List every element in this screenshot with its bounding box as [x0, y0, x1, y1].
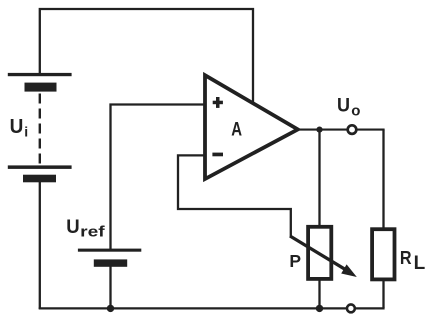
svg-text:A: A — [231, 120, 242, 141]
wire U_ref negative to bottom rail — [109, 266, 111, 308]
wire top rail from U_i positive to op-amp top — [40, 9, 253, 104]
wire non-inverting input from U_ref positive — [111, 105, 207, 251]
battery U_ref positive plate — [78, 249, 141, 252]
battery U_i lower cell negative plate — [23, 175, 56, 183]
svg-text:P: P — [289, 251, 301, 271]
wire output node down to potentiometer top — [318, 130, 320, 227]
junction dot potentiometer at bottom rail — [316, 305, 323, 312]
wire bottom rail — [39, 307, 385, 309]
battery U_i lower cell positive plate — [8, 165, 72, 169]
op-amp non-inverting plus sign — [213, 97, 223, 108]
resistor R_L body — [372, 229, 394, 279]
junction dot output node — [316, 127, 322, 133]
op-amp A body — [205, 75, 298, 179]
terminal bottom open circle — [347, 304, 355, 312]
svg-text:U: U — [337, 95, 350, 117]
wire right rail down to R_L top — [382, 130, 384, 229]
wire U_i negative terminal down to bottom rail — [39, 182, 41, 309]
svg-text:U: U — [10, 115, 24, 138]
potentiometer P wiper arrow — [290, 236, 357, 277]
battery U_i upper cell negative plate — [25, 83, 57, 92]
battery U_i upper cell positive plate — [8, 73, 72, 76]
wire potentiometer bottom to bottom rail — [318, 279, 320, 308]
potentiometer P body — [308, 227, 331, 279]
svg-text:o: o — [351, 103, 360, 120]
junction dot U_ref at bottom rail — [107, 305, 114, 312]
battery U_ref negative plate — [94, 259, 127, 266]
wire inverting input feedback to potentiometer wiper — [178, 155, 291, 237]
op-amp inverting minus sign — [212, 153, 223, 157]
svg-text:i: i — [24, 124, 28, 140]
wire R_L bottom to bottom rail — [382, 279, 384, 308]
svg-text:R: R — [400, 247, 412, 268]
svg-text:L: L — [414, 253, 426, 274]
svg-text:U: U — [66, 217, 79, 238]
wire dashed link between U_i cells — [39, 94, 41, 166]
svg-text:ref: ref — [80, 225, 105, 241]
terminal U_o open circle — [348, 125, 357, 134]
wire output rail from op-amp apex to right corner — [296, 129, 385, 131]
